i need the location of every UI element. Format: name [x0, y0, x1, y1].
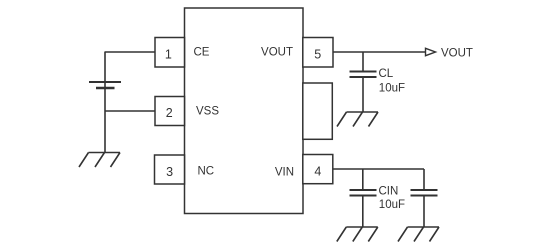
- svg-text:10uF: 10uF: [379, 83, 405, 95]
- svg-text:4: 4: [314, 165, 321, 179]
- svg-text:CIN: CIN: [379, 185, 399, 197]
- svg-text:VOUT: VOUT: [261, 47, 293, 59]
- svg-text:1: 1: [165, 47, 172, 61]
- svg-text:2: 2: [166, 106, 173, 120]
- svg-text:VOUT: VOUT: [441, 47, 473, 59]
- svg-text:VIN: VIN: [275, 166, 294, 178]
- svg-text:3: 3: [166, 165, 173, 179]
- svg-text:VSS: VSS: [196, 106, 219, 118]
- svg-text:NC: NC: [198, 166, 215, 178]
- svg-text:5: 5: [314, 47, 321, 61]
- svg-text:CL: CL: [379, 68, 394, 80]
- svg-text:10uF: 10uF: [379, 199, 405, 211]
- svg-text:CE: CE: [194, 46, 210, 58]
